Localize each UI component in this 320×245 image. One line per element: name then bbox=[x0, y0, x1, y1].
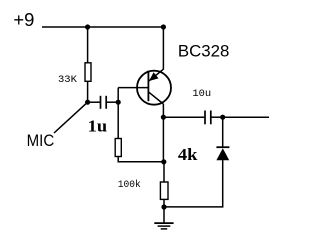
wire 100k bottom to collector net bbox=[118, 157, 164, 162]
svg-text:1u: 1u bbox=[88, 117, 108, 136]
diode D1 triangle bbox=[216, 148, 229, 160]
wire capacitor 1u to base node bbox=[107, 101, 118, 103]
wire base node to transistor base bbox=[118, 87, 148, 89]
svg-text:10u: 10u bbox=[192, 89, 211, 100]
wire from 33K resistor down to mic node bbox=[87, 81, 89, 102]
wire emitter from rail down bbox=[162, 27, 164, 70]
transistor BC328 emitter arrow (PNP) bbox=[149, 72, 159, 81]
node ground junction bbox=[161, 204, 166, 209]
wire output node down to diode bbox=[222, 117, 224, 147]
svg-text:+9: +9 bbox=[13, 9, 34, 30]
wire 4k bottom to ground node bbox=[163, 200, 165, 208]
node base divider junction bbox=[116, 100, 121, 105]
node junction on +9 rail bbox=[85, 24, 90, 29]
node mic junction bbox=[85, 100, 90, 105]
transistor BC328 base bar bbox=[147, 71, 149, 101]
svg-text:33K: 33K bbox=[58, 75, 77, 86]
wire output to right bbox=[223, 116, 269, 118]
resistor 4k body bbox=[160, 182, 168, 199]
ground symbol bbox=[154, 207, 173, 229]
capacitor 1u plates bbox=[101, 96, 107, 109]
node collector output junction bbox=[161, 115, 166, 120]
transistor BC328 emitter line bbox=[149, 69, 164, 81]
node corner dot at rail right end bbox=[161, 24, 166, 29]
resistor 100k body bbox=[115, 139, 121, 157]
node collector 4k junction bbox=[161, 159, 166, 164]
wire vertical base node to 100k bbox=[117, 88, 119, 139]
svg-text:BC328: BC328 bbox=[178, 42, 230, 60]
wire top +9 rail bbox=[42, 26, 163, 28]
wire vertical into 4k resistor bbox=[163, 162, 165, 182]
resistor 33K body bbox=[85, 63, 91, 82]
svg-text:MIC: MIC bbox=[27, 131, 55, 150]
diode D1 cathode bar bbox=[216, 146, 229, 148]
transistor BC328 collector line bbox=[149, 92, 164, 104]
wire from rail down to 33K resistor bbox=[87, 27, 89, 63]
wire collector node to capacitor 10u bbox=[163, 116, 204, 118]
wire mic node to capacitor 1u bbox=[88, 101, 100, 103]
capacitor 10u plates bbox=[205, 111, 211, 125]
wire collector down bbox=[162, 104, 164, 162]
node output junction bbox=[220, 115, 225, 120]
svg-text:4k: 4k bbox=[178, 145, 198, 164]
wire diagonal to MIC bbox=[54, 102, 88, 133]
svg-text:100k: 100k bbox=[118, 179, 141, 191]
wire diode down to bottom rail bbox=[164, 160, 223, 207]
wire capacitor 10u to output node bbox=[212, 116, 223, 118]
transistor BC328 circle bbox=[137, 71, 171, 105]
